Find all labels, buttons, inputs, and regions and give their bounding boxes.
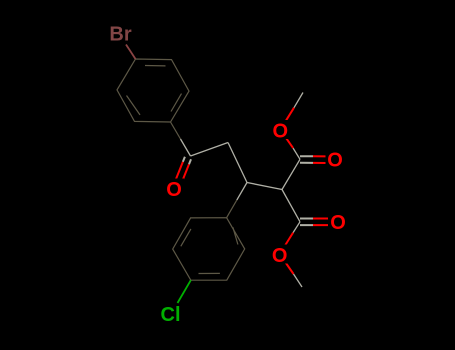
ester2 double bond C2=O4	[300, 219, 328, 226]
bond CH(malonate)-C2 ester carbon	[282, 190, 300, 222]
svg-text:Br: Br	[109, 24, 131, 46]
svg-text:O: O	[166, 179, 182, 201]
bond Br-ring	[126, 45, 136, 60]
ester1 bond O1-CH3	[280, 93, 303, 130]
svg-text:O: O	[273, 121, 289, 143]
benzene ring (4-bromophenyl) with inner aromatic lines	[117, 59, 189, 122]
bond C(=O)-CH2	[191, 143, 229, 157]
svg-text:O: O	[327, 150, 343, 172]
svg-text:Cl: Cl	[161, 304, 181, 326]
ester1 double bond C1=O2	[300, 156, 328, 163]
bond CH(malonate)-C1 ester carbon	[282, 159, 300, 189]
bond CH(aryl) to chlorophenyl ring	[227, 183, 247, 218]
ester1 bond C1-O1	[280, 130, 300, 160]
svg-text:O: O	[330, 212, 346, 234]
label backings	[164, 120, 348, 264]
svg-text:O: O	[272, 245, 288, 267]
bond ring to carbonyl C	[171, 122, 191, 156]
ester2 bond O3-CH3	[280, 254, 302, 287]
benzene ring (4-chlorophenyl) with inner aromatic lines	[173, 218, 245, 281]
ketone C=O double bond	[175, 157, 191, 185]
bond CH(aryl)-CH(malonate)	[247, 183, 282, 190]
bond CH2-CH(aryl)	[228, 143, 247, 183]
bond Cl-ring	[178, 280, 191, 303]
ester2 bond C2-O3	[280, 222, 300, 254]
